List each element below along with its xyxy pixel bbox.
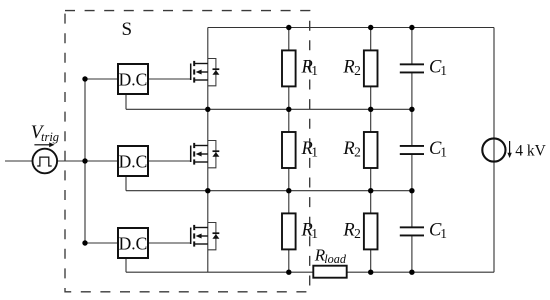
svg-text:load: load	[324, 252, 347, 266]
svg-text:2: 2	[354, 63, 361, 78]
svg-text:R: R	[342, 221, 354, 241]
svg-text:4 kV: 4 kV	[515, 143, 546, 160]
svg-text:1: 1	[311, 63, 318, 78]
svg-text:trig: trig	[41, 130, 59, 144]
svg-text:2: 2	[354, 145, 361, 160]
svg-text:1: 1	[311, 145, 318, 160]
svg-text:1: 1	[440, 226, 447, 241]
svg-text:1: 1	[440, 145, 447, 160]
svg-text:2: 2	[354, 226, 361, 241]
svg-text:1: 1	[311, 226, 318, 241]
svg-text:1: 1	[440, 63, 447, 78]
svg-text:S: S	[122, 19, 133, 40]
svg-text:R: R	[342, 139, 354, 159]
svg-text:R: R	[342, 58, 354, 78]
